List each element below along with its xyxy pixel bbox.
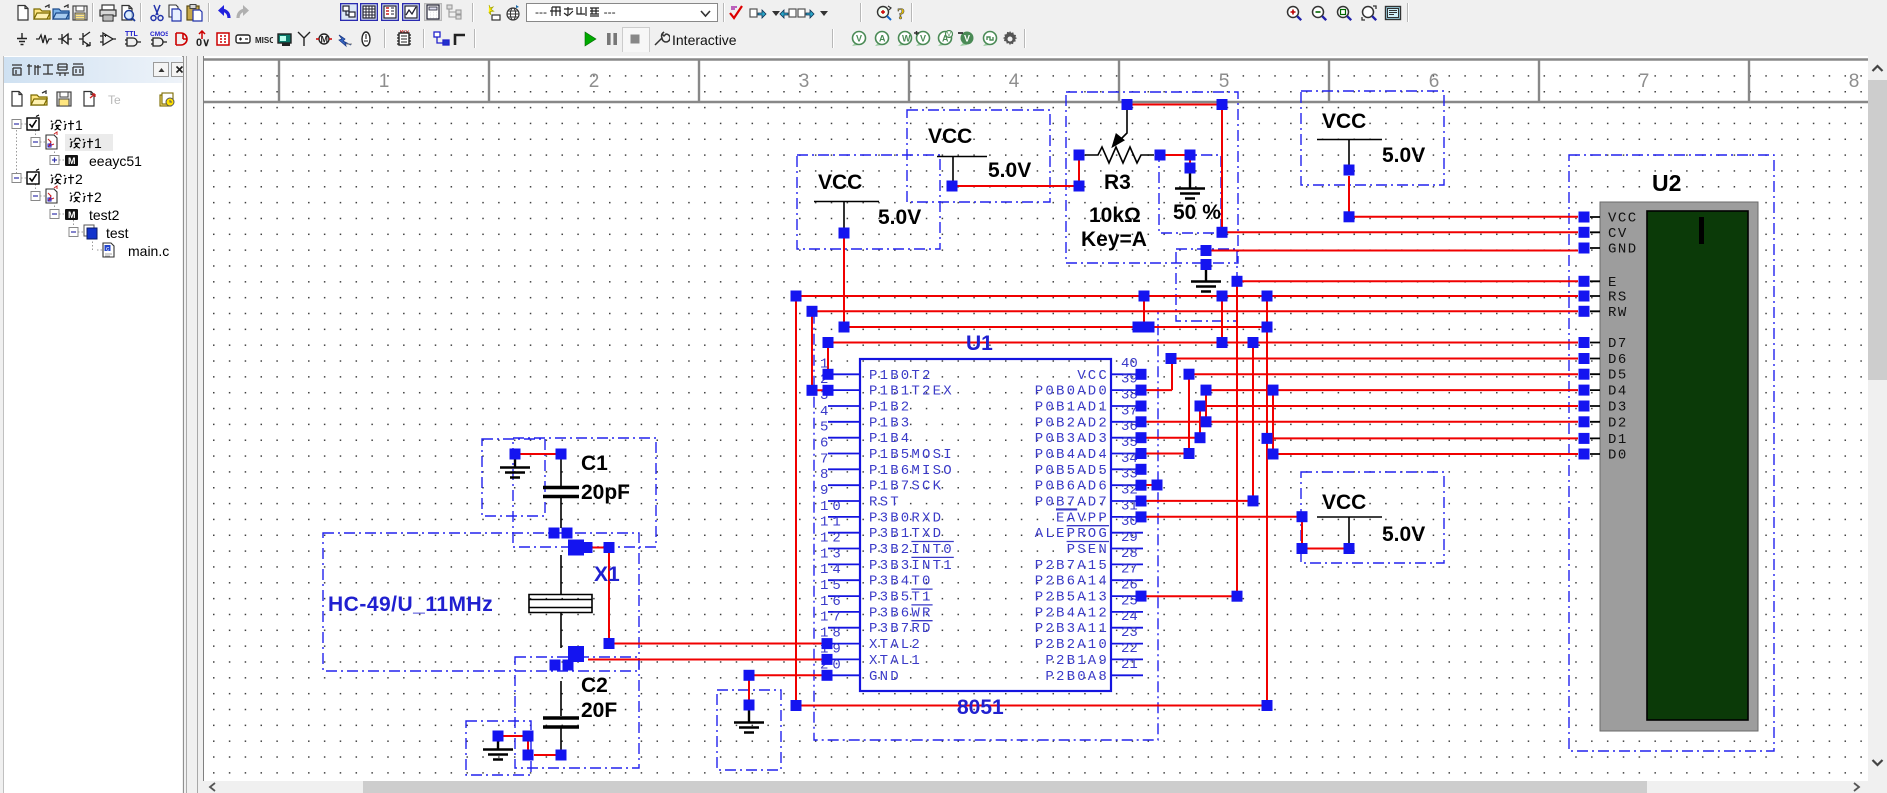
svg-text:E: E (1608, 275, 1618, 291)
junction (1126.0,104.5) (1122, 99, 1133, 110)
svg-text:11: 11 (820, 515, 845, 531)
wire y705 bottom bus (796, 705, 1267, 707)
junction (608.0,643.5) (604, 638, 615, 649)
junction (1188.0,374.2) (1184, 369, 1195, 380)
wire vertical x1221 CV riser (1221, 105, 1223, 233)
ground GND4 selection box (1159, 155, 1221, 233)
svg-text:28: 28 (1121, 546, 1138, 562)
toolbar: fullscreen (1384, 4, 1402, 22)
VCC V1 selection box (797, 155, 940, 249)
junction (1140.0,406.0) (1136, 401, 1147, 412)
toolbar: database view (381, 3, 399, 21)
svg-text:PSEN: PSEN (1067, 542, 1109, 558)
svg-text:P2B0A8: P2B0A8 (1045, 669, 1109, 685)
junction (527.0,736.0) (523, 731, 534, 742)
svg-text:5.0V: 5.0V (988, 159, 1031, 182)
svg-text:P3B3INT1: P3B3INT1 (869, 558, 954, 574)
junction (795.0,705.5) (791, 700, 802, 711)
svg-text:5: 5 (820, 420, 832, 436)
svg-text:W: W (902, 34, 911, 44)
svg-text:P0B2AD2: P0B2AD2 (1035, 415, 1109, 431)
junction (1301.0,516.7) (1297, 511, 1308, 522)
junction (527.0,755.0) (523, 750, 534, 761)
potentiometer R3 wiper arrow (1120, 110, 1127, 140)
svg-text:D4: D4 (1608, 384, 1628, 400)
svg-text:M: M (321, 35, 329, 45)
VCC V2 symbol (937, 157, 987, 182)
svg-text:34: 34 (1121, 451, 1138, 467)
toolbar2: run (581, 30, 599, 48)
wire vertical x795 (795, 296, 797, 706)
svg-text:V: V (964, 34, 970, 44)
svg-text:P3B0RXD: P3B0RXD (869, 510, 943, 526)
toolbar: redo (234, 4, 252, 22)
wire vertical x811 to pin2 (812, 311, 828, 390)
wire vertical x1170 pin33 jog (1140, 359, 1172, 391)
toolbar: forward annotate (797, 4, 815, 22)
op chip U1 selection box (814, 311, 1158, 740)
wire E net horizontal (1237, 280, 1578, 282)
svg-text:40: 40 (1121, 356, 1138, 372)
svg-text:RST: RST (869, 495, 901, 511)
svg-text:29: 29 (1121, 530, 1138, 546)
toolbar2: bus (452, 30, 470, 48)
svg-text:D2: D2 (1608, 415, 1628, 431)
svg-text:?: ? (897, 6, 905, 22)
VCC V3 selection box (1301, 91, 1444, 185)
svg-text:D5: D5 (1608, 368, 1628, 384)
toolbar2: advanced peripherals (276, 30, 294, 48)
svg-text:CV: CV (1608, 226, 1628, 242)
VCC V2 selection box (907, 110, 1050, 202)
junction (1236.0,596.2) (1232, 591, 1243, 602)
toolbar: help (893, 4, 911, 22)
svg-text:0∨: 0∨ (196, 37, 210, 48)
junction (1140.0,437.7) (1136, 432, 1147, 443)
LCD U2 selection box (1569, 155, 1774, 751)
junction (826.0,659.4) (822, 654, 833, 665)
capacitor C2 selection box (515, 657, 639, 768)
junction (560.0,755.0) (556, 750, 567, 761)
wire D6 net horizontal (1172, 358, 1578, 360)
junction (1140.0,453.5) (1136, 448, 1147, 459)
capacitor C1 plates (543, 454, 579, 528)
toolbar: grapher view (402, 3, 420, 21)
toolbar: open sample (52, 4, 70, 22)
svg-text:P1B7SCK: P1B7SCK (869, 479, 943, 495)
junction (1170.0,358.5) (1166, 353, 1177, 364)
svg-text:C2: C2 (581, 674, 608, 697)
toolbar2: RF antenna (295, 30, 313, 48)
tree row 1 design1 root (12, 120, 21, 129)
toolbar2: probe W (895, 30, 913, 48)
junction (1348.0,548.5) (1344, 543, 1355, 554)
junction (1272.0,390.1) (1268, 385, 1279, 396)
wire LCD GND net horizontal (1206, 250, 1578, 252)
ground GND3 selection box (717, 690, 781, 770)
toolbar2: basic/resistor (35, 30, 53, 48)
svg-text:10: 10 (820, 499, 845, 515)
toolbar: zoom out (1310, 4, 1328, 22)
svg-text:2: 2 (589, 71, 600, 92)
junction (1583.0,342.5) (1579, 337, 1590, 348)
VCC V1 symbol (814, 202, 879, 229)
junction (811.0,311.3) (807, 306, 818, 317)
junction (1583.0,454.0) (1579, 449, 1590, 460)
potentiometer R3 arrowhead (1113, 135, 1123, 146)
junction (1199.0,437.7) (1195, 432, 1206, 443)
wire D0 net horizontal (1273, 453, 1578, 455)
svg-text:32: 32 (1121, 483, 1138, 499)
svg-text:P1B5MOSI: P1B5MOSI (869, 447, 954, 463)
wire y327 horizontal (844, 326, 1267, 328)
svg-text:4: 4 (1009, 71, 1020, 92)
svg-text:U2: U2 (1652, 170, 1681, 196)
ground GND2 (483, 741, 513, 760)
wire U1 GND pin to GND3 (749, 675, 828, 705)
toolbar2: misc digital (171, 30, 189, 48)
svg-text:9: 9 (820, 483, 832, 499)
tree row 7 test project (69, 228, 78, 237)
svg-text:P3B5T1: P3B5T1 (869, 590, 933, 606)
junction (1140.0,485.2) (1136, 480, 1147, 491)
ground GND5 (1191, 270, 1221, 292)
ground GND3 (734, 710, 764, 733)
wire vertical x1188 pin34 jog (1140, 374, 1189, 453)
toolbar2: indicator matrix (214, 30, 232, 48)
wire D7 net horizontal (828, 342, 1578, 344)
svg-text:P1B2: P1B2 (869, 400, 911, 416)
ground GND1 selection box (482, 439, 545, 516)
svg-text:25: 25 (1121, 593, 1138, 609)
toolbar2: probe settings gear (1001, 30, 1019, 48)
svg-text:15: 15 (820, 578, 845, 594)
svg-text:8: 8 (820, 467, 832, 483)
wire R3 right to GND4 (1162, 155, 1190, 168)
toolbar: create component (484, 4, 502, 22)
toolbar2: ground source (13, 30, 31, 48)
junction (554.0,665.0) (550, 660, 561, 671)
junction (1148.0,327.0) (1144, 322, 1155, 333)
junction (575.0,654.0) (571, 649, 582, 660)
svg-text:A: A (879, 34, 886, 44)
svg-text:1: 1 (379, 71, 390, 92)
svg-text:P0B6AD6: P0B6AD6 (1035, 479, 1109, 495)
svg-text:P0B0AD0: P0B0AD0 (1035, 384, 1109, 400)
junction (826.0,675.3) (822, 670, 833, 681)
toolbar: back annotate (779, 4, 797, 22)
junction (827.0,342.5) (823, 337, 834, 348)
wire vertical x843 from VCC V1 (843, 233, 845, 327)
junction (1078.0,186.0) (1074, 181, 1085, 192)
panel toolbar (8, 90, 25, 107)
junction (514.0,454.0) (510, 449, 521, 460)
svg-text:P0B7AD7: P0B7AD7 (1035, 495, 1109, 511)
svg-text:CMOS: CMOS (150, 31, 168, 38)
svg-text:VCC: VCC (928, 125, 972, 148)
tree row 2 design1 sheet (31, 138, 40, 147)
wire vertical x1266 (1266, 296, 1268, 706)
junction (1583.0,421.8) (1579, 416, 1590, 427)
tree row 8 main.c (103, 243, 114, 257)
toolbar2: pause (603, 30, 621, 48)
svg-text:3: 3 (799, 71, 810, 92)
ruler band (204, 59, 1869, 102)
capacitor C1 selection box (513, 438, 656, 547)
wire RW net horizontal (812, 310, 1578, 312)
junction (1140.0,390.1) (1136, 385, 1147, 396)
svg-text:P3B6WR: P3B6WR (869, 605, 933, 621)
svg-text:P0B3AD3: P0B3AD3 (1035, 431, 1109, 447)
junction (1205.0,421.8) (1201, 416, 1212, 427)
tree row 4 design2 root (12, 174, 21, 183)
toolbar: zoom fit (1360, 4, 1378, 22)
wire VCC V3 drop (1348, 176, 1350, 217)
junction (1583.0,232.3) (1579, 227, 1590, 238)
junction (497.0,736.0) (493, 731, 504, 742)
svg-text:P1B6MISO: P1B6MISO (869, 463, 954, 479)
junction (1583.0,390.1) (1579, 385, 1590, 396)
junction (586.0,547.5) (582, 542, 593, 553)
toolbar: find (875, 4, 893, 22)
LCD U2 cursor (1699, 217, 1704, 244)
toolbar: zoom in (1285, 4, 1303, 22)
svg-text:P2B5A13: P2B5A13 (1035, 590, 1109, 606)
junction (1301.0,548.5) (1297, 543, 1308, 554)
svg-text:U1: U1 (966, 332, 993, 355)
ground GND5 selection box (1176, 249, 1237, 321)
toolbar: undo (215, 4, 233, 22)
toolbar: new file (14, 4, 32, 22)
svg-text:P2B4A12: P2B4A12 (1035, 605, 1109, 621)
junction squares (493, 99, 1590, 761)
junction (575.0,547.5) (568, 540, 584, 556)
svg-text:7: 7 (820, 451, 832, 467)
svg-text:P1B0T2: P1B0T2 (869, 368, 933, 384)
junction (1583.0,296.0) (1579, 291, 1590, 302)
toolbar: spreadsheet view (360, 3, 378, 21)
svg-text:36: 36 (1121, 419, 1138, 435)
wire pin32 stub pair (1143, 484, 1157, 486)
svg-text:5: 5 (1219, 71, 1230, 92)
junction (1189.0,168.0) (1185, 163, 1196, 174)
svg-text:5.0V: 5.0V (1382, 144, 1425, 167)
svg-text:X1: X1 (594, 563, 620, 586)
wire D2 net horizontal (1140, 421, 1578, 423)
LCD U2 pin stubs (1590, 217, 1600, 454)
junction (827.0,374.3) (823, 369, 834, 380)
wire EA pin to VCC V4 (1143, 517, 1349, 549)
toolbar2: probe A (872, 30, 890, 48)
junction (826.0,643.6) (822, 638, 833, 649)
toolbar2: analog (99, 30, 117, 48)
junction (1221.0,296.0) (1217, 291, 1228, 302)
ground GND4 (1175, 173, 1205, 199)
junction (1252.0,500.9) (1248, 495, 1259, 506)
ground GND2 selection box (466, 721, 531, 775)
U1 pin stubs (828, 374, 1143, 675)
junction (1583.0,438.4) (1579, 433, 1590, 444)
junction (608.0,547.5) (604, 542, 615, 553)
junction (566.0,533.0) (562, 528, 573, 539)
svg-text:C1: C1 (581, 452, 608, 475)
wire vertical x1199 pin36 jog (1140, 390, 1273, 454)
toolbar2: interactive label (672, 32, 737, 48)
toolbar2: diode (56, 30, 74, 48)
svg-text:V: V (947, 33, 951, 39)
VCC V3 symbol (1317, 140, 1382, 172)
svg-text:P2B1A9: P2B1A9 (1045, 653, 1109, 669)
svg-text:35: 35 (1121, 435, 1138, 451)
junction (1140.0,596.1) (1136, 591, 1147, 602)
wire D3 net horizontal (1200, 405, 1578, 407)
toolbar2: hierarchical block (433, 30, 451, 48)
wire RS net horizontal (796, 295, 1578, 297)
VCC V4 selection box (1301, 472, 1444, 563)
svg-text:7: 7 (1639, 71, 1650, 92)
junction (1156.0,485.0) (1152, 480, 1163, 491)
svg-text:33: 33 (1121, 467, 1138, 483)
svg-text:5.0V: 5.0V (878, 206, 921, 229)
wire D4 net horizontal (1206, 389, 1578, 391)
svg-text:P3B4T0: P3B4T0 (869, 574, 933, 590)
LCD U2 screen (1647, 211, 1748, 720)
svg-text:P2B7A15: P2B7A15 (1035, 558, 1109, 574)
svg-text:5.0V: 5.0V (1382, 523, 1425, 546)
junction (1221.0,104.5) (1217, 99, 1228, 110)
svg-text:XTAL1: XTAL1 (869, 653, 922, 669)
svg-text:17: 17 (820, 610, 845, 626)
svg-text:RS: RS (1608, 290, 1628, 306)
wire vertical x827 to pin1 (827, 343, 829, 375)
toolbar2: interactive wrench (652, 30, 670, 48)
toolbar2: MCU (395, 30, 413, 48)
junction (1140.0,501.0) (1136, 496, 1147, 507)
svg-text:ALEPROG: ALEPROG (1035, 526, 1109, 542)
svg-text:D1: D1 (1608, 432, 1628, 448)
crystal X1 selection box (323, 533, 639, 671)
toolbar2: TTL (124, 30, 142, 48)
svg-text:P3B1TXD: P3B1TXD (869, 526, 943, 542)
VCC V4 symbol (1317, 517, 1382, 543)
crystal X1 body (529, 555, 592, 648)
junction (1221.0,342.5) (1217, 337, 1228, 348)
junction (1143.0,296.0) (1139, 291, 1150, 302)
ground GND1 (500, 459, 530, 478)
junction (1266.0,327.0) (1262, 322, 1273, 333)
wire vertical x1236 E riser to pin25 (1143, 281, 1237, 596)
junction (1236.0,281.3) (1232, 276, 1243, 287)
toolbar2: probe AV (935, 30, 953, 48)
U1 pin name labels (869, 368, 1109, 685)
wire XTAL2 net (586, 548, 828, 644)
junction (1189.0,155.0) (1185, 150, 1196, 161)
junction (1205.0,390.1) (1201, 385, 1212, 396)
toolbar2: MISC group (255, 30, 273, 48)
junction (843.0,233.0) (839, 228, 850, 239)
junction (1205.0,250.5) (1201, 245, 1212, 256)
wire R3 left leg (952, 160, 1079, 186)
svg-text:M: M (68, 156, 76, 166)
junction (567.0,665.0) (563, 660, 574, 671)
toolbar: design toolbox view (340, 3, 358, 21)
svg-text:D7: D7 (1608, 336, 1628, 352)
svg-text:HC-49/U_11MHz: HC-49/U_11MHz (328, 593, 493, 616)
svg-text:VCC: VCC (1077, 368, 1109, 384)
wire LCD VCC net horizontal (1349, 216, 1578, 218)
junction (843.0,327.0) (839, 322, 850, 333)
selection dash-dot boxes (323, 91, 1774, 775)
junction (1252.0,342.5) (1248, 337, 1259, 348)
svg-text:EAVPP: EAVPP (1056, 510, 1109, 526)
junction (1583.0,311.3) (1579, 306, 1590, 317)
junction (1583.0,406.0) (1579, 401, 1590, 412)
svg-text:D3: D3 (1608, 400, 1628, 416)
wire vertical x1143 (1143, 296, 1145, 327)
toolbar2: mixed (193, 30, 211, 48)
toolbar2: NI components bird (336, 30, 354, 48)
svg-text:RW: RW (1608, 305, 1628, 321)
wire XTAL1 net (588, 659, 828, 661)
svg-text:14: 14 (820, 562, 845, 578)
junction (795.0,296.0) (791, 291, 802, 302)
U1 pin numbers (820, 356, 1138, 674)
wire C2 to GND2 (498, 736, 561, 755)
svg-text:VCC: VCC (1322, 491, 1366, 514)
svg-text:16: 16 (820, 594, 845, 610)
junction (827.0,390.3) (823, 385, 834, 396)
svg-text:31: 31 (1121, 498, 1138, 514)
svg-text:GND: GND (1608, 242, 1638, 258)
toolbar2: probe -V (957, 30, 975, 48)
svg-text:P0B5AD5: P0B5AD5 (1035, 463, 1109, 479)
wire R3 top to CV riser (1127, 104, 1222, 106)
svg-text:MISC: MISC (255, 36, 273, 45)
toolbar: zoom area (1335, 4, 1353, 22)
svg-text:23: 23 (1121, 625, 1138, 641)
svg-text:P2B3A11: P2B3A11 (1035, 621, 1109, 637)
svg-text:22: 22 (1121, 641, 1138, 657)
svg-text:12: 12 (820, 531, 845, 547)
svg-text:M: M (68, 210, 76, 220)
toolbar: postprocessor (424, 3, 442, 21)
toolbar: caret2 (816, 4, 828, 22)
toolbar: print (99, 4, 117, 22)
toolbar: ERC check (727, 4, 745, 22)
U1 label overlines (911, 509, 1109, 621)
svg-text:P1B4: P1B4 (869, 431, 911, 447)
toolbar: hierarchy (disabled) (445, 3, 463, 21)
toolbar: copy (166, 4, 184, 22)
wire CV net horizontal (1222, 231, 1578, 233)
toolbar2: probe +V (913, 30, 931, 48)
junction (748.0,705.0) (744, 700, 755, 711)
svg-text:D6: D6 (1608, 352, 1628, 368)
svg-text:39: 39 (1121, 372, 1138, 388)
svg-text:6: 6 (820, 436, 832, 452)
junction (575.0,654.0) (568, 646, 584, 662)
tree row 6 test2 (50, 210, 59, 219)
svg-text:10kΩ: 10kΩ (1089, 204, 1141, 227)
toolbar: export forward (749, 4, 767, 22)
toolbar2: probe clock (980, 30, 998, 48)
junction (1159.0,155.0) (1155, 150, 1166, 161)
svg-text:MCU: MCU (400, 30, 409, 34)
svg-text:Key=A: Key=A (1081, 228, 1147, 251)
toolbar: in-use list combo (526, 3, 718, 22)
junction (1140.0,516.9) (1136, 511, 1147, 522)
junction (1348.0,170.0) (1344, 165, 1355, 176)
